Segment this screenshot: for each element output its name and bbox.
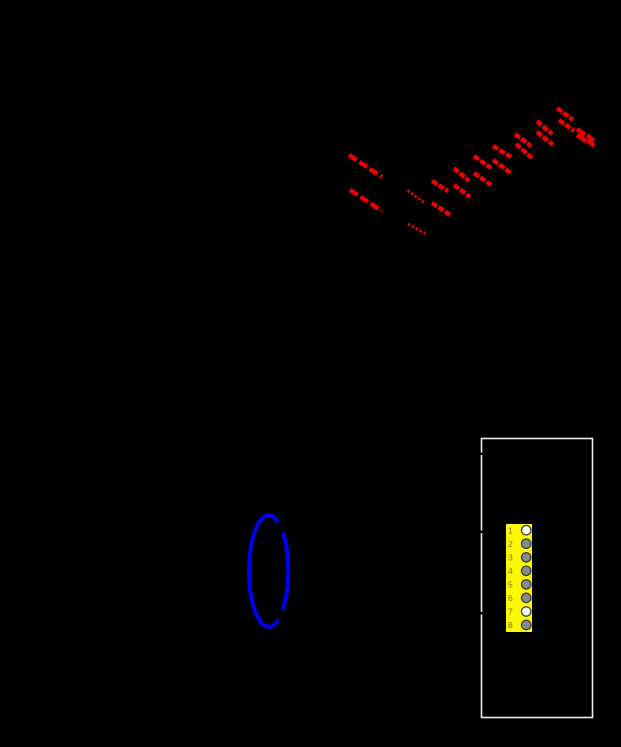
blue ellipse annotation (open at upper-right and lower-right): [249, 515, 288, 627]
pad 4: [522, 566, 531, 575]
end cluster dash 2: [577, 135, 586, 141]
pad 1 (white): [522, 526, 531, 535]
svg-text:6: 6: [508, 593, 513, 603]
yellow connector strip: [506, 524, 532, 632]
staircase station 3 lower: [493, 160, 512, 174]
pad 3: [522, 553, 531, 562]
staircase station 4 upper: [515, 134, 531, 146]
staircase station 0 lower: [432, 203, 450, 215]
staircase station 5 lower: [537, 132, 553, 145]
end cluster dash 1: [577, 129, 585, 135]
pads: [522, 526, 531, 630]
pad 5: [522, 580, 531, 589]
white rectangle outline: [482, 439, 593, 718]
pad 2: [522, 539, 531, 548]
end cluster dash 3: [587, 135, 594, 141]
pad 6: [522, 593, 531, 602]
pad 7 (white): [522, 607, 531, 616]
red dashed line A (upper-left): [349, 155, 382, 177]
staircase station 1 lower: [454, 185, 470, 197]
svg-text:1: 1: [508, 526, 513, 536]
svg-text:5: 5: [508, 580, 513, 590]
staircase station 6 upper: [557, 108, 573, 120]
staircase station 2 lower: [474, 173, 491, 185]
notch on left border 3: [480, 612, 483, 615]
pin numbers: [508, 526, 513, 631]
svg-text:8: 8: [508, 620, 513, 630]
svg-text:2: 2: [508, 539, 513, 549]
svg-text:4: 4: [508, 566, 513, 576]
staircase station 4 lower: [516, 144, 532, 158]
end cluster dash 4: [587, 140, 594, 146]
pad 8: [522, 620, 531, 629]
red dashed line B (lower-left): [350, 190, 382, 211]
staircase station 3 upper: [493, 146, 511, 157]
staircase station 2 upper: [474, 156, 491, 168]
red fuzzy scribble D: [408, 224, 427, 235]
staircase station 5 upper: [537, 121, 552, 134]
red fuzzy scribble C: [408, 191, 426, 204]
notch on left border 1: [480, 453, 483, 456]
svg-text:7: 7: [508, 607, 513, 617]
staircase station 1 upper: [454, 168, 469, 181]
staircase station 0 upper: [432, 181, 448, 191]
staircase station 6 lower: [559, 120, 574, 131]
notch on left border 2: [480, 531, 483, 534]
svg-text:3: 3: [508, 553, 513, 563]
